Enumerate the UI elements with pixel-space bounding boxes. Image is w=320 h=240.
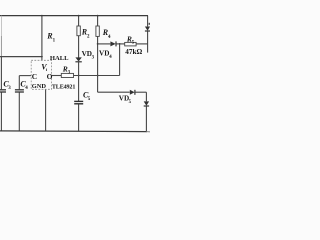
diode VD6 (points down) (144, 101, 149, 105)
node: junction Vs/R1 (41, 56, 43, 58)
svg-text:C: C (32, 72, 37, 81)
resistor R4 branch lead (97, 16, 99, 26)
svg-text:VD: VD (99, 49, 109, 57)
svg-text:TLE4921: TLE4921 (52, 84, 75, 90)
node: junction top rail / R2 (78, 15, 80, 17)
wire: V pin stub into hall box (41, 57, 43, 61)
wire: left rail upper segment (0, 16, 2, 36)
wire: R3 output wire from O pin (52, 75, 62, 77)
label fragment at right edge (cropped VD1 label) (149, 23, 150, 25)
diode VD1 (top right, points down) (145, 27, 150, 31)
wire: top supply rail (0, 15, 148, 17)
wire: R2 to VD3 (78, 36, 80, 58)
node: junction R4 / VD4 wire (97, 43, 99, 45)
svg-text:47kΩ: 47kΩ (125, 48, 142, 56)
wire: output corner wire (VD4 node down to R3 wire) (119, 44, 121, 76)
wire: right rail from top corner (147, 16, 149, 27)
wire: VD4 to R5 (116, 43, 124, 45)
resistor R2 body (77, 26, 80, 36)
diode VD5 (130, 90, 135, 95)
node: junction VD4 wire / output corner wire (119, 43, 121, 45)
diode VD4 (110, 41, 115, 46)
node: junction R3 wire / VD3 branch (78, 75, 80, 77)
resistor R3 body (61, 73, 73, 77)
wire: VD3 down through output node to C5 (78, 62, 80, 101)
svg-text:HALL: HALL (50, 55, 69, 62)
hall sensor U1 TLE4921 dashed box (31, 60, 51, 89)
resistor R4 body (96, 26, 99, 36)
wire: VD4 horizontal wire (98, 43, 111, 45)
wire: R4 down to VD5 corner (97, 36, 99, 92)
node: junction R4 / R3 output wire (97, 75, 99, 77)
node: junction top rail / R4 (97, 15, 99, 17)
capacitor C5 (74, 100, 83, 102)
wire: GND pin stub to bottom rail (45, 90, 47, 132)
diode VD3 (75, 57, 81, 61)
svg-text:VD: VD (82, 50, 92, 58)
wire: bottom corner of R4 branch to VD5 (98, 91, 130, 93)
capacitor C4 (branch x=19.3) (19, 75, 31, 77)
node: junction top rail / R1 (41, 15, 43, 17)
svg-text:GND: GND (32, 83, 47, 90)
wire: right rail below VD1 (147, 31, 149, 52)
wire: bottom ground rail (0, 130, 147, 133)
wire: VD6 to bottom rail (145, 106, 147, 131)
wire: corner down to VD6 (145, 92, 147, 101)
wire: VD5 to right corner (135, 91, 146, 93)
resistor R5 body (125, 42, 136, 46)
resistor R2 branch lead (78, 16, 80, 27)
capacitor C3 (left branch) (0, 57, 2, 90)
svg-text:O: O (47, 72, 53, 81)
wire: R5 to right rail (136, 43, 148, 45)
wire: R3 to corner x=119.6 (74, 75, 120, 77)
resistor R1 (vertical branch line) (41, 16, 43, 57)
wire: Vs horizontal wire y=56.5 (0, 56, 42, 58)
